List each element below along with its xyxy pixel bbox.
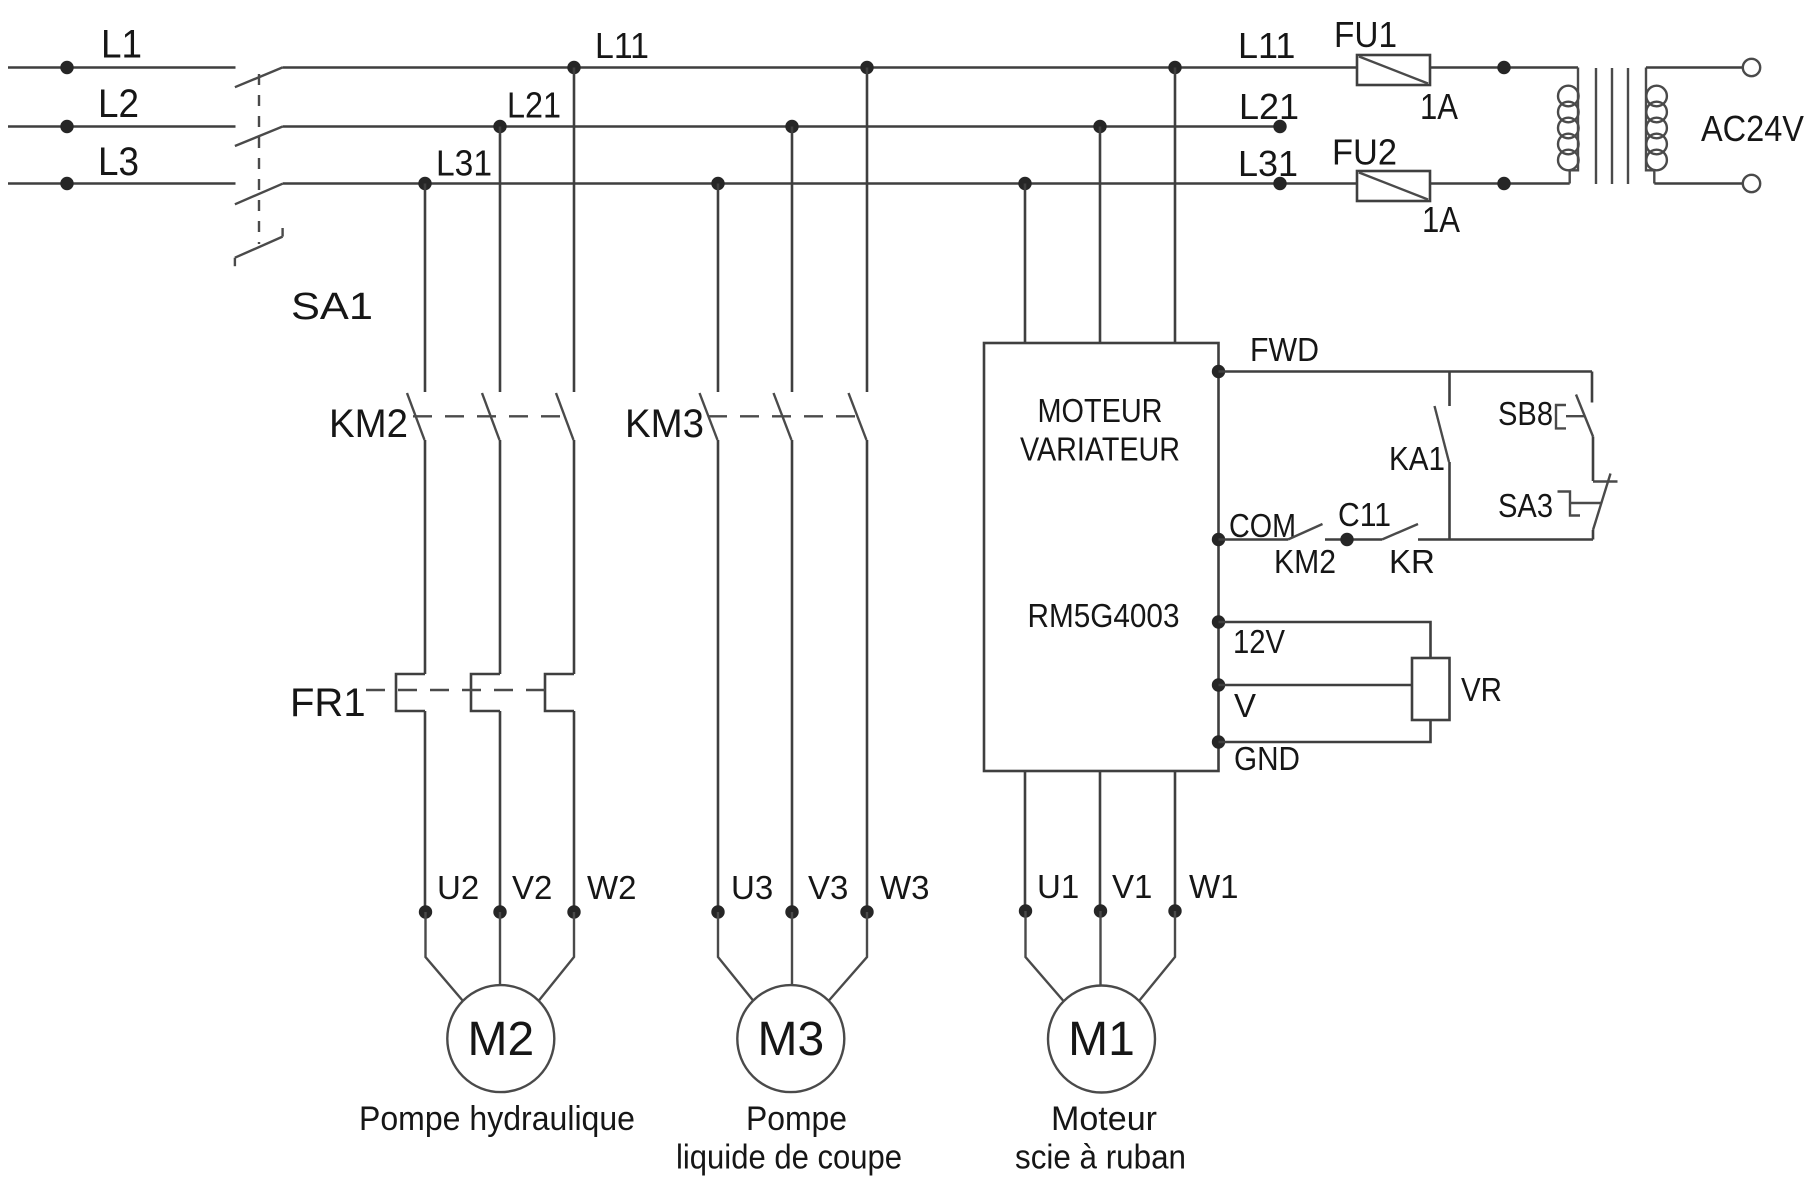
wire KM3 pole1 upper <box>717 184 720 393</box>
label FU2 <box>1332 132 1397 173</box>
wire SB8 branch corner <box>1591 372 1594 403</box>
label L21 right <box>1239 86 1299 127</box>
wire KM3 pole3 to W3 <box>866 440 869 906</box>
wire KM2 pole1 lower <box>424 440 427 674</box>
node C11 <box>1340 533 1353 546</box>
label W2 <box>587 869 637 906</box>
wire secondary bottom to AC24V <box>1654 182 1743 185</box>
svg-text:1A: 1A <box>1420 86 1458 127</box>
svg-text:L1: L1 <box>101 23 142 67</box>
pushbutton SB8 <box>1556 395 1593 437</box>
svg-text:FWD: FWD <box>1250 331 1319 368</box>
node L31 <box>418 177 431 190</box>
contactor KM3 <box>700 393 867 440</box>
caption Moteur <box>1051 1100 1157 1138</box>
junction L31 to KM3 <box>711 177 724 190</box>
svg-text:W3: W3 <box>880 869 930 906</box>
node V3 <box>785 905 798 918</box>
svg-text:V: V <box>1234 687 1256 724</box>
label FR1 <box>290 681 366 725</box>
wire SB8 to SA3 <box>1592 437 1595 482</box>
wire KM3 pole2 upper <box>791 127 794 393</box>
pin 12V <box>1212 615 1225 628</box>
svg-text:FR1: FR1 <box>290 681 366 725</box>
label VR <box>1461 671 1502 708</box>
wire variator W1 output <box>1174 771 1177 905</box>
svg-text:W2: W2 <box>587 869 637 906</box>
motor M1 <box>1048 986 1155 1093</box>
label 1A FU1 <box>1420 86 1458 127</box>
wire V1 lead to motor M1 <box>1099 911 1101 985</box>
label U1 <box>1037 868 1079 905</box>
thermal overload FR1 <box>366 674 574 711</box>
svg-text:L21: L21 <box>507 85 561 126</box>
svg-text:V3: V3 <box>808 869 848 906</box>
wire L11 to variator <box>1174 68 1177 344</box>
label KA1 <box>1389 440 1445 477</box>
transformer T1 secondary <box>1646 68 1667 184</box>
wire FR1 pole3 to W2 <box>573 711 576 906</box>
svg-text:Moteur: Moteur <box>1051 1100 1157 1138</box>
label GND <box>1234 740 1300 777</box>
relay contact KA1 <box>1435 406 1450 462</box>
wire SA3 lower <box>1592 530 1595 540</box>
label COM <box>1229 507 1296 544</box>
label AC24V <box>1701 108 1804 149</box>
contactor KM2 <box>407 393 574 440</box>
pin COM <box>1212 533 1225 546</box>
wire V2 lead to motor M2 <box>499 912 501 985</box>
label L11 <box>595 25 649 66</box>
wire FR1 pole2 to V2 <box>499 711 502 906</box>
svg-text:MOTEUR: MOTEUR <box>1038 392 1163 429</box>
svg-text:KR: KR <box>1389 543 1435 580</box>
pin V <box>1212 678 1225 691</box>
node V2 <box>493 905 506 918</box>
wire L1 feeder <box>8 66 236 69</box>
wire KM2 pole1 upper <box>424 184 427 393</box>
node W3 <box>860 905 873 918</box>
variable frequency drive U1 MOTEUR VARIATEUR RM5G4003 <box>984 343 1219 771</box>
caption liquide de coupe <box>676 1139 902 1177</box>
junction L11 to variator <box>1168 61 1181 74</box>
svg-text:V1: V1 <box>1112 868 1152 905</box>
caption Pompe <box>746 1100 847 1138</box>
wire W3 lead to motor M3 <box>829 912 868 1001</box>
svg-text:12V: 12V <box>1233 623 1285 660</box>
label L11 right <box>1238 25 1295 66</box>
label FU1 <box>1334 14 1397 55</box>
node U3 <box>711 905 724 918</box>
pin GND <box>1212 735 1225 748</box>
wire L3 feeder <box>8 182 236 185</box>
wire COM line left <box>1219 538 1289 541</box>
junction L11 to KM3 <box>860 61 873 74</box>
terminal AC24V bottom <box>1743 175 1760 192</box>
wire FU2 to transformer <box>1430 182 1570 185</box>
junction FU2 transformer <box>1497 177 1510 190</box>
wire V3 lead to motor M3 <box>791 912 793 985</box>
motor M2 <box>447 985 554 1092</box>
svg-text:M1: M1 <box>1068 1013 1135 1066</box>
svg-text:U3: U3 <box>731 869 773 906</box>
potentiometer VR <box>1412 658 1450 720</box>
wire secondary top to AC24V <box>1646 66 1743 69</box>
svg-text:VARIATEUR: VARIATEUR <box>1020 431 1180 468</box>
limit switch SA3 <box>1558 474 1618 531</box>
label L21 <box>507 85 561 126</box>
wire L21 rail <box>283 125 1280 128</box>
wire U1 lead to motor M1 <box>1026 911 1064 1001</box>
svg-text:SA3: SA3 <box>1498 487 1553 524</box>
svg-text:RM5G4003: RM5G4003 <box>1028 597 1180 634</box>
label L31 <box>436 143 492 184</box>
wire GND line <box>1219 720 1431 742</box>
svg-text:KM2: KM2 <box>1274 543 1336 580</box>
node V1 <box>1094 904 1107 917</box>
svg-text:U1: U1 <box>1037 868 1079 905</box>
wire KM2 pole3 upper <box>573 68 576 393</box>
terminal dot L3 <box>60 177 73 190</box>
label SA1 <box>291 286 373 328</box>
wire KM2 aux to C11 <box>1325 538 1382 541</box>
svg-text:W1: W1 <box>1189 868 1239 905</box>
wire 12V line <box>1219 622 1431 658</box>
node L21 end <box>1273 120 1286 133</box>
wire KM2 pole2 upper <box>499 127 502 393</box>
label KR <box>1389 543 1435 580</box>
svg-text:KA1: KA1 <box>1389 440 1445 477</box>
wire FWD line <box>1219 370 1593 373</box>
terminal AC24V top <box>1743 59 1760 76</box>
caption Pompe hydraulique <box>359 1100 635 1138</box>
svg-text:L2: L2 <box>98 82 139 126</box>
junction L21 to variator <box>1093 120 1106 133</box>
transformer T1 primary <box>1558 68 1579 184</box>
svg-text:L31: L31 <box>436 143 492 184</box>
svg-text:VR: VR <box>1461 671 1502 708</box>
junction L31 to variator <box>1018 177 1031 190</box>
wire KM3 pole2 to V3 <box>791 440 794 906</box>
wire KM3 pole1 to U3 <box>717 440 720 906</box>
svg-text:M3: M3 <box>757 1013 824 1066</box>
label L3 <box>98 140 139 184</box>
svg-text:M2: M2 <box>467 1013 534 1066</box>
wire KA1 branch stub <box>1448 372 1451 407</box>
svg-text:FU2: FU2 <box>1332 132 1397 173</box>
label L31 right <box>1238 143 1298 184</box>
wire FR1 pole1 to U2 <box>424 711 427 906</box>
wire KM2 pole3 lower <box>573 440 576 674</box>
wire L11 rail <box>283 66 1357 69</box>
wire U2 lead to motor M2 <box>426 912 464 1001</box>
terminal dot L1 <box>60 61 73 74</box>
caption scie a ruban <box>1015 1139 1186 1177</box>
motor M3 <box>737 985 844 1092</box>
wire KM3 pole3 upper <box>866 68 869 393</box>
label 1A FU2 <box>1422 199 1460 240</box>
svg-text:U2: U2 <box>437 869 479 906</box>
svg-text:L21: L21 <box>1239 86 1299 127</box>
junction L21 to KM3 <box>785 120 798 133</box>
node W2 <box>567 905 580 918</box>
svg-text:1A: 1A <box>1422 199 1460 240</box>
label L2 <box>98 82 139 126</box>
svg-text:L11: L11 <box>595 25 649 66</box>
node L31 right <box>1273 177 1286 190</box>
label W1 <box>1189 868 1239 905</box>
node W1 <box>1168 904 1181 917</box>
svg-text:L3: L3 <box>98 140 139 184</box>
wire KA1 lower <box>1448 462 1451 540</box>
wire L21 to variator <box>1099 127 1102 344</box>
label U2 <box>437 869 479 906</box>
wire U3 lead to motor M3 <box>718 912 754 1001</box>
svg-text:FU1: FU1 <box>1334 14 1397 55</box>
label V <box>1234 687 1256 724</box>
svg-text:Pompe hydraulique: Pompe hydraulique <box>359 1100 635 1138</box>
svg-text:KM2: KM2 <box>329 402 408 446</box>
label W3 <box>880 869 930 906</box>
transformer T1 core <box>1596 68 1628 184</box>
wire W1 lead to motor M1 <box>1139 911 1175 1001</box>
svg-text:SB8: SB8 <box>1498 395 1553 432</box>
label U3 <box>731 869 773 906</box>
node U2 <box>419 905 432 918</box>
label SB8 <box>1498 395 1553 432</box>
label C11 <box>1338 496 1391 533</box>
label V1 <box>1112 868 1152 905</box>
node L11 <box>567 61 580 74</box>
label KM2 <box>329 402 408 446</box>
fuse FU2 <box>1357 171 1430 201</box>
node U1 <box>1019 904 1032 917</box>
svg-text:AC24V: AC24V <box>1701 108 1804 149</box>
svg-text:KM3: KM3 <box>625 402 704 446</box>
node L21 <box>493 120 506 133</box>
svg-text:C11: C11 <box>1338 496 1391 533</box>
svg-text:liquide de coupe: liquide de coupe <box>676 1139 902 1177</box>
wire COM line right <box>1418 538 1593 541</box>
svg-text:L31: L31 <box>1238 143 1298 184</box>
svg-text:SA1: SA1 <box>291 286 373 328</box>
wire L31 to variator <box>1024 184 1027 344</box>
contact KM2 auxiliary <box>1288 524 1323 540</box>
svg-text:GND: GND <box>1234 740 1300 777</box>
label 12V <box>1233 623 1285 660</box>
wire variator V1 output <box>1099 771 1102 905</box>
label L1 <box>101 23 142 67</box>
label SA3 <box>1498 487 1553 524</box>
label V3 <box>808 869 848 906</box>
fuse FU1 <box>1357 55 1430 85</box>
terminal dot L2 <box>60 120 73 133</box>
wire W2 lead to motor M2 <box>539 912 575 1001</box>
disconnect switch SA1 <box>235 67 283 266</box>
pin FWD <box>1212 365 1225 378</box>
label KM2 aux <box>1274 543 1336 580</box>
svg-text:scie à ruban: scie à ruban <box>1015 1139 1186 1177</box>
svg-text:V2: V2 <box>512 869 552 906</box>
label FWD <box>1250 331 1319 368</box>
wire variator U1 output <box>1024 771 1027 905</box>
wire KM2 pole2 lower <box>499 440 502 674</box>
contact KR <box>1382 524 1418 540</box>
wire L2 feeder <box>8 125 236 128</box>
wire FU1 to transformer <box>1430 66 1578 69</box>
label KM3 <box>625 402 704 446</box>
wire L31 rail <box>283 182 1357 185</box>
svg-text:L11: L11 <box>1238 25 1295 66</box>
label V2 <box>512 869 552 906</box>
svg-text:Pompe: Pompe <box>746 1100 847 1138</box>
wire V line <box>1219 684 1413 687</box>
junction FU1 transformer <box>1497 61 1510 74</box>
